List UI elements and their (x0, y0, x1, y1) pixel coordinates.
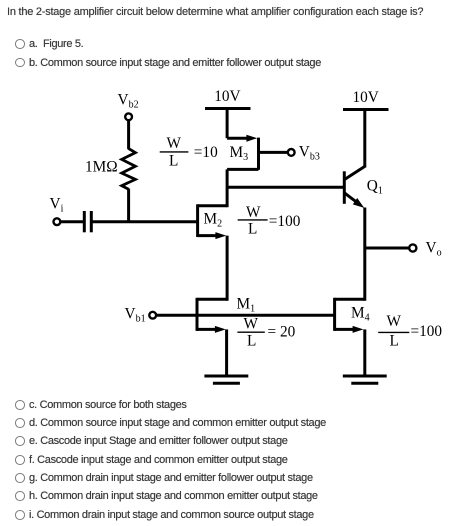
terminal Vb3 (288, 149, 295, 156)
svg-text:L: L (169, 153, 178, 170)
wire 10V left to M3 source (226, 109, 229, 139)
svg-text:M2: M2 (204, 211, 223, 230)
option c (15, 400, 25, 410)
svg-text:W: W (167, 135, 182, 152)
svg-text:W: W (246, 204, 261, 221)
capacitor C1 (84, 211, 91, 232)
svg-text:=100: =100 (269, 213, 301, 230)
svg-text:W: W (244, 315, 259, 332)
label W/L=100 for M4 (378, 313, 442, 350)
wire Vi to C1 (61, 220, 83, 223)
supply 10V right bar (343, 108, 389, 111)
wire output node to Vo (365, 247, 409, 250)
wire Q1 emitter to M4 drain (363, 208, 366, 301)
transistor Q1 (344, 166, 365, 208)
svg-text:10V: 10V (353, 89, 379, 106)
wire M3 gate to Vb3 (259, 151, 288, 154)
svg-text:M3: M3 (230, 144, 249, 163)
wire M4 source to ground (363, 329, 366, 376)
label W/L=10 for M3 (160, 135, 218, 170)
supply 10V left bar (205, 107, 251, 110)
transistor M4 (335, 298, 365, 333)
ground left (204, 376, 248, 383)
svg-text:M4: M4 (351, 305, 370, 324)
wire R1 to gate node (127, 189, 130, 222)
svg-text:Q1: Q1 (367, 178, 383, 197)
option f (15, 455, 25, 465)
terminal Vb1 (149, 312, 156, 319)
label W/L=100 for M2 (238, 204, 301, 237)
wire C1 to M2 gate (91, 220, 197, 223)
option b (15, 58, 25, 68)
wire Vb1 to M1 and M4 gates (156, 314, 334, 317)
option a (15, 39, 25, 49)
svg-text:Vb3: Vb3 (299, 144, 320, 163)
option i (15, 510, 25, 520)
wire M1 source to ground (225, 329, 228, 376)
option e (15, 436, 25, 446)
terminal Vb2 (125, 113, 132, 120)
option d (15, 418, 25, 428)
label W/L=20 for M1 (237, 315, 295, 349)
wire M3 drain to node A (226, 169, 229, 207)
resistor R1 1Mohm (122, 149, 136, 190)
transistor M2 (198, 204, 228, 239)
transistor M1 (197, 298, 227, 333)
svg-text:= 20: = 20 (268, 324, 296, 341)
wire 10V right to Q1 collector (363, 110, 366, 168)
transistor M3 (227, 135, 258, 170)
option g (15, 473, 25, 483)
svg-text:L: L (248, 220, 257, 237)
svg-text:L: L (390, 332, 399, 349)
svg-text:L: L (247, 332, 256, 349)
svg-text:Vb2: Vb2 (118, 92, 139, 111)
wire node A to Q1 base (227, 186, 344, 189)
terminal Vi (54, 218, 61, 225)
svg-text:10V: 10V (214, 88, 240, 105)
svg-text:Vb1: Vb1 (125, 306, 146, 325)
option h (15, 491, 25, 501)
wire M2 source to M1 drain (226, 236, 229, 301)
svg-text:=100: =100 (411, 323, 443, 340)
svg-text:Vi: Vi (50, 196, 64, 215)
terminal Vo (409, 244, 416, 251)
svg-text:Vo: Vo (426, 239, 442, 258)
svg-text:=10: =10 (194, 144, 218, 161)
svg-text:M1: M1 (237, 296, 256, 315)
svg-text:W: W (387, 313, 402, 330)
svg-text:1MΩ: 1MΩ (85, 159, 118, 176)
wire Vb2 to R1 (127, 120, 130, 149)
ground right (343, 376, 387, 383)
